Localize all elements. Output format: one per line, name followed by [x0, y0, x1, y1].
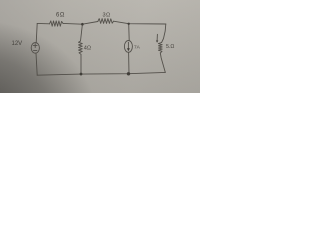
svg-text:6Ω: 6Ω [56, 13, 65, 19]
svg-text:7A: 7A [134, 44, 141, 50]
svg-text:4Ω: 4Ω [84, 46, 91, 52]
svg-text:3Ω: 3Ω [103, 12, 111, 18]
svg-text:12V: 12V [12, 41, 23, 47]
svg-text:5.Ω: 5.Ω [166, 44, 174, 50]
